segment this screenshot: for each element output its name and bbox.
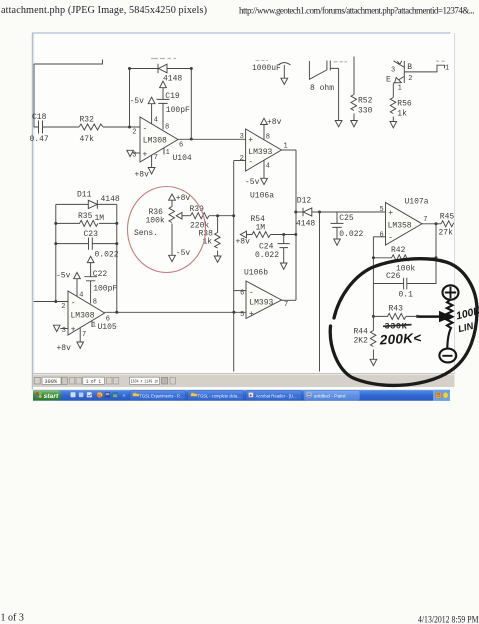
svg-text:-5v: -5v <box>56 272 71 281</box>
task button Acrobat Reader <box>246 391 302 400</box>
resistor R38 1k with ground arrow <box>199 216 222 263</box>
svg-text:LM393: LM393 <box>249 299 273 308</box>
node junction R43/R44 <box>372 315 375 318</box>
browser window frame left edge <box>31 33 33 390</box>
svg-text:1000uF: 1000uF <box>252 64 281 73</box>
wire wiper to R39 <box>182 215 191 217</box>
svg-text:5: 5 <box>379 206 383 214</box>
capacitor C18 0.47 <box>30 113 49 144</box>
ground at U105 pin3 <box>53 325 68 331</box>
wire R39 to bus <box>209 215 234 217</box>
node junctions C23 row <box>54 242 57 245</box>
svg-text:R43: R43 <box>389 305 404 314</box>
svg-text:U106a: U106a <box>250 192 274 201</box>
svg-text:-: - <box>388 234 393 243</box>
svg-text:100k: 100k <box>146 217 165 226</box>
hand-drawn marker circle annotation <box>330 259 477 386</box>
svg-text:+: + <box>71 326 76 335</box>
wire C18 to R32 <box>43 126 80 128</box>
capacitor C19 100pF <box>157 92 191 115</box>
svg-text:8: 8 <box>266 134 270 142</box>
task button TGSL Experiments <box>130 391 186 400</box>
wire left feedback column U105 <box>55 204 57 301</box>
wire U106b pin6 stub <box>234 290 246 292</box>
hand-drawn plus terminal circle <box>443 285 459 299</box>
diode D11 4148 <box>77 191 120 209</box>
wire output vertical to R42/C26 <box>407 224 436 284</box>
svg-text:2: 2 <box>240 155 244 163</box>
svg-text:D12: D12 <box>297 197 312 206</box>
svg-text:1634 x 1149 in: 1634 x 1149 in <box>131 379 159 385</box>
svg-text:8: 8 <box>93 299 97 307</box>
hand-drawn minus terminal circle <box>439 349 456 363</box>
diode D10 4148 (cathode left) <box>158 64 182 84</box>
svg-text:100pF: 100pF <box>93 285 117 294</box>
svg-text:3: 3 <box>240 133 244 141</box>
svg-text:4: 4 <box>154 117 158 125</box>
svg-text:LM308: LM308 <box>143 137 167 146</box>
svg-text:4148: 4148 <box>296 220 315 229</box>
hand-drawn wiper arrow <box>419 311 453 322</box>
node junction output/right column <box>115 311 118 314</box>
pin 8 stub with +8v arrow U106a <box>261 118 282 142</box>
browser window inner gray line <box>33 34 35 373</box>
node junctions R42 row <box>372 256 375 259</box>
svg-text:1: 1 <box>166 149 170 157</box>
svg-text:1M: 1M <box>256 224 266 233</box>
node junction left of D10 <box>128 67 131 70</box>
schematic image white background <box>33 34 454 374</box>
svg-text:»: » <box>123 393 126 399</box>
-5v supply arrow at U105 pin4 <box>56 272 83 300</box>
svg-text:7: 7 <box>284 301 288 309</box>
op-amp U104 LM308 <box>132 117 192 163</box>
pin 1 stub U104 <box>163 148 165 155</box>
svg-text:3: 3 <box>391 67 395 75</box>
svg-text:27k: 27k <box>439 229 454 238</box>
svg-text:U105: U105 <box>98 323 117 332</box>
svg-text:0.1: 0.1 <box>399 291 414 300</box>
speaker 8 ohm (cropped) <box>309 61 347 127</box>
resistor R32 47k <box>79 116 103 145</box>
svg-text:+8v: +8v <box>135 171 150 180</box>
-5v supply label and arrow at U104 pin4 <box>130 97 159 125</box>
svg-text:1: 1 <box>445 65 449 73</box>
svg-text:0.022: 0.022 <box>255 251 279 260</box>
wire U106b output <box>282 299 297 301</box>
node junction D12 cathode <box>318 211 321 214</box>
svg-text:6: 6 <box>179 142 183 150</box>
svg-text:2K2: 2K2 <box>354 337 369 346</box>
svg-text:C22: C22 <box>93 270 108 279</box>
svg-text:LM308: LM308 <box>71 312 95 321</box>
wire arrow to C19 <box>162 88 164 99</box>
resistor R44 2K2 with ground arrow <box>354 316 377 365</box>
svg-text:+: + <box>248 136 253 145</box>
task button untitled Paint (active) <box>304 391 360 400</box>
task button TGSL complete <box>188 391 244 400</box>
svg-text:TGSL - complete deta...: TGSL - complete deta... <box>198 393 241 399</box>
resistor R56 1k with ground arrow <box>390 83 412 128</box>
svg-text:E: E <box>386 76 391 85</box>
handwritten crossed-out 330K value <box>383 322 412 332</box>
svg-text:R35: R35 <box>78 212 93 221</box>
svg-text:4148: 4148 <box>101 195 120 204</box>
capacitor C23 0.022 <box>56 230 119 260</box>
svg-text:D11: D11 <box>77 191 92 200</box>
pin 4 stub with -5v arrow U106a <box>245 160 270 187</box>
svg-text:R39: R39 <box>190 205 205 214</box>
wire C19 to U104 pin8 <box>162 103 164 129</box>
node junction bus <box>232 214 235 217</box>
wire D12 to LM358 pin5 <box>320 211 386 213</box>
svg-text:4148: 4148 <box>163 75 182 84</box>
svg-text:6: 6 <box>379 232 383 240</box>
svg-text:-5v: -5v <box>130 97 145 106</box>
svg-text:-: - <box>71 299 76 308</box>
svg-text:300%: 300% <box>45 379 58 385</box>
resistor R43 <box>373 305 419 320</box>
svg-text:C18: C18 <box>32 113 47 122</box>
node junction right of D10 <box>190 67 193 70</box>
svg-text:0.022: 0.022 <box>95 251 119 260</box>
node junction on U104 output <box>190 138 193 141</box>
wire U107a output <box>422 223 441 225</box>
browser window frame top edge <box>32 32 450 34</box>
svg-text:-: - <box>248 158 253 167</box>
power arrow up to capacitor C19 <box>160 81 167 88</box>
svg-text:R42: R42 <box>391 246 406 255</box>
wire D11 feedback top <box>56 203 117 205</box>
svg-text:7: 7 <box>423 216 427 224</box>
node junction C24 top <box>282 233 285 236</box>
ground at U104 pin3 <box>127 150 140 156</box>
op-amp U106b LM393 <box>240 269 288 320</box>
capacitor C24 0.022 with ground arrow <box>255 235 290 270</box>
svg-text:TGSL Experiments - P...: TGSL Experiments - P... <box>140 393 183 399</box>
resistor R54 1M <box>247 215 296 238</box>
svg-text:1: 1 <box>284 143 288 151</box>
node junction pin5/bus <box>232 311 235 314</box>
wire U107a pin6 to feedback column <box>373 236 385 238</box>
svg-text:+: + <box>143 151 148 160</box>
wire long vertical inverting bus <box>233 161 235 372</box>
hand-drawn potentiometer squiggle 100K LIN <box>447 300 453 349</box>
svg-text:LIN: LIN <box>457 321 476 336</box>
svg-text:1: 1 <box>92 322 96 330</box>
wire left vertical down to C18 <box>34 64 39 127</box>
svg-text:C25: C25 <box>339 214 354 223</box>
node junctions R35 row <box>54 222 57 225</box>
svg-text:100pF: 100pF <box>166 106 190 115</box>
svg-text:U104: U104 <box>173 154 192 163</box>
capacitor C25 0.022 with ground arrow <box>331 212 364 245</box>
svg-text:-5v: -5v <box>176 249 191 258</box>
svg-text:-: - <box>249 289 254 298</box>
node junction output <box>435 222 438 225</box>
capacitor C26 0.1 <box>373 272 413 300</box>
resistor R35 1M <box>56 212 117 226</box>
svg-text:+8v: +8v <box>176 194 191 203</box>
svg-text:C19: C19 <box>165 92 180 101</box>
node junction D12 anode <box>294 211 297 214</box>
svg-text:1M: 1M <box>95 214 105 223</box>
svg-text:0.47: 0.47 <box>30 135 49 144</box>
node junction pin2/feedback <box>54 300 57 303</box>
system tray <box>434 390 450 401</box>
quick launch icons <box>71 392 76 397</box>
svg-text:330: 330 <box>358 107 373 116</box>
red pen ellipse around Sens pot <box>128 187 206 273</box>
resistor R42 100k <box>373 246 436 274</box>
windows taskbar <box>33 390 450 401</box>
resistor R45 27k (clipped at page edge) <box>439 213 455 238</box>
op-amp U107a LM358 <box>379 198 428 246</box>
diode D12 4148 (cathode left) <box>296 197 320 229</box>
wire U106a output <box>282 149 297 151</box>
pin 7 stub with +8v arrow U104 <box>135 154 159 180</box>
resistor R52 330 with ground arrow <box>351 57 373 127</box>
svg-text:LM393: LM393 <box>248 148 272 157</box>
svg-text:+8v: +8v <box>267 118 282 127</box>
wire junction up to feedback <box>190 69 192 140</box>
wire U106a pin2 to long vertical <box>234 160 246 162</box>
svg-text:U106b: U106b <box>244 269 268 278</box>
svg-text:R32: R32 <box>80 116 95 125</box>
pin 1 stub U105 <box>91 321 93 327</box>
svg-text:C26: C26 <box>386 272 401 281</box>
capacitor 1000uF (cropped polarized) <box>252 61 291 85</box>
svg-text:8: 8 <box>165 124 169 132</box>
svg-text:R52: R52 <box>358 97 373 106</box>
wire feedback top horizontal <box>130 68 192 70</box>
potentiometer R36 100k Sens with +8v arrow <box>134 194 190 262</box>
svg-text:C23: C23 <box>84 230 99 239</box>
transistor Q (cropped PNP) <box>386 61 449 93</box>
svg-text:4: 4 <box>266 163 270 171</box>
wire U105 output to U106b pin5 <box>105 311 246 313</box>
svg-text:+8v: +8v <box>236 238 251 247</box>
svg-text:U107a: U107a <box>405 198 429 207</box>
wire long vertical from D12 node down <box>319 212 321 372</box>
wire U104 output to U106a pin3 <box>178 138 246 140</box>
+8v arrow feeding R54 <box>236 231 251 246</box>
svg-text:-: - <box>143 125 148 134</box>
svg-text:+8v: +8v <box>57 344 72 353</box>
browser window frame right faint edge <box>454 33 456 374</box>
pin 7 stub with +8v arrow U105 <box>57 328 87 353</box>
capacitor C22 100pF <box>84 262 117 303</box>
svg-text:7: 7 <box>154 154 158 162</box>
svg-text:1 of 1: 1 of 1 <box>86 379 101 385</box>
cropped label fragment above diode <box>151 58 176 60</box>
svg-text:0.022: 0.022 <box>339 230 363 239</box>
svg-text:200K<: 200K< <box>378 330 421 347</box>
svg-text:+: + <box>249 310 254 319</box>
svg-text:2: 2 <box>132 129 136 137</box>
wire feedback left vertical <box>129 69 131 128</box>
svg-text:1: 1 <box>398 85 402 93</box>
svg-text:2: 2 <box>408 75 412 83</box>
svg-text:B: B <box>407 63 412 72</box>
node junction R38 top <box>216 214 219 217</box>
svg-text:R44: R44 <box>354 328 369 337</box>
svg-text:1k: 1k <box>397 110 407 119</box>
svg-text:LM358: LM358 <box>388 222 412 231</box>
viewer toolbar <box>33 374 455 387</box>
svg-text:R56: R56 <box>397 100 412 109</box>
wire top-left input segment with end tick <box>34 60 103 65</box>
node junction at feedback/input <box>128 126 131 129</box>
op-amp U105 LM308 <box>61 291 110 335</box>
svg-text:8 ohm: 8 ohm <box>310 84 334 93</box>
svg-text:2: 2 <box>61 303 65 311</box>
node junction on R43 wire <box>416 315 419 318</box>
wire comparator output vertical <box>295 150 297 300</box>
svg-text:7: 7 <box>82 331 86 339</box>
resistor R39 220k <box>190 205 210 231</box>
node junction R54/output bus <box>294 233 297 236</box>
arrow up from capacitor C22 <box>87 256 94 262</box>
svg-text:R45: R45 <box>440 213 455 222</box>
svg-text:start: start <box>44 393 59 400</box>
wire R32 to U104 pin2 <box>103 126 140 128</box>
svg-text:3: 3 <box>62 327 66 335</box>
svg-text:+: + <box>388 209 393 218</box>
start button <box>33 390 61 400</box>
svg-text:47k: 47k <box>80 135 95 144</box>
wire right feedback column U105 <box>116 204 118 312</box>
svg-text:untitled - Paint: untitled - Paint <box>314 393 347 399</box>
svg-text:5: 5 <box>240 311 244 319</box>
svg-text:Acrobat Reader - [U...: Acrobat Reader - [U... <box>256 393 297 399</box>
svg-text:-5v: -5v <box>245 178 260 187</box>
handwritten 100K LIN labels <box>455 304 479 322</box>
svg-text:Sens.: Sens. <box>134 229 158 238</box>
op-amp U106a LM393 <box>240 129 288 201</box>
wire feedback column x373 <box>372 237 374 317</box>
wire U105 pin2 input from left edge <box>34 301 69 303</box>
